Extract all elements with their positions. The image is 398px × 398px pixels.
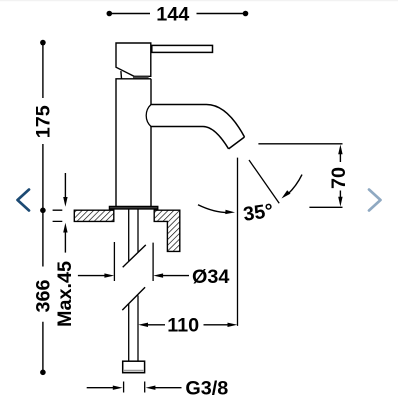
cartridge cap (116, 43, 151, 76)
dim dots 175/366 (40, 40, 46, 46)
Ø34 right arrow (163, 275, 189, 277)
dim 70 top reference line (258, 143, 342, 145)
svg-text:366: 366 (33, 279, 55, 312)
break slash 2 (122, 287, 145, 310)
cap shadow line (133, 76, 149, 78)
svg-text:70: 70 (328, 167, 350, 189)
dim 144 line (109, 13, 245, 15)
Max.45 lower arrow (64, 232, 66, 253)
G3/8 right arrow (155, 387, 182, 389)
dim 70 bottom reference line (309, 206, 342, 208)
counter left slab hatched (74, 210, 114, 221)
svg-text:144: 144 (156, 3, 189, 25)
G3/8 left arrow (87, 387, 113, 389)
extension line from spout tip (237, 158, 239, 326)
svg-text:Max.45: Max.45 (54, 261, 76, 327)
dim Ø34 extension lines (114, 242, 153, 281)
spout tip cut (229, 137, 245, 149)
neck seam line (120, 71, 123, 79)
G3/8 nut (123, 361, 145, 373)
right nav chevron (369, 190, 381, 211)
dim 144 end dots (107, 11, 113, 17)
shank upper left line (128, 209, 130, 261)
shank upper right line (137, 209, 139, 252)
35 degree stream diagonal (249, 160, 279, 203)
svg-text:35°: 35° (242, 200, 275, 226)
counter right L-shape hatched (154, 210, 180, 251)
dim 175/366 vertical line (42, 43, 44, 373)
dim 110 right arrow (204, 324, 229, 326)
svg-text:175: 175 (33, 105, 55, 138)
spout outer edge (151, 105, 245, 138)
dim 70 vertical line with arrows (339, 153, 341, 198)
nut inner shadow (124, 370, 143, 372)
base plate (109, 206, 157, 209)
svg-text:Ø34: Ø34 (192, 266, 229, 288)
Max.45 upper arrow (64, 173, 66, 198)
shank lower right line (137, 295, 139, 361)
35 degree left arc arrow (198, 205, 228, 213)
break slash 1 (123, 245, 146, 267)
left nav chevron (18, 190, 30, 211)
dim 110 left arrow (148, 324, 165, 326)
spout inner edge (151, 127, 229, 149)
faucet body column (116, 79, 151, 207)
35 degree right arc arrow (288, 175, 303, 195)
spout joint arc (146, 105, 151, 127)
G3/8 ticks (124, 382, 145, 393)
shank lower left line (128, 304, 130, 361)
Ø34 left arrow (78, 275, 105, 277)
svg-text:G3/8: G3/8 (185, 377, 228, 398)
svg-text:110: 110 (167, 314, 199, 336)
lever handle (152, 45, 213, 52)
Max.45 extension dashes (53, 210, 63, 221)
